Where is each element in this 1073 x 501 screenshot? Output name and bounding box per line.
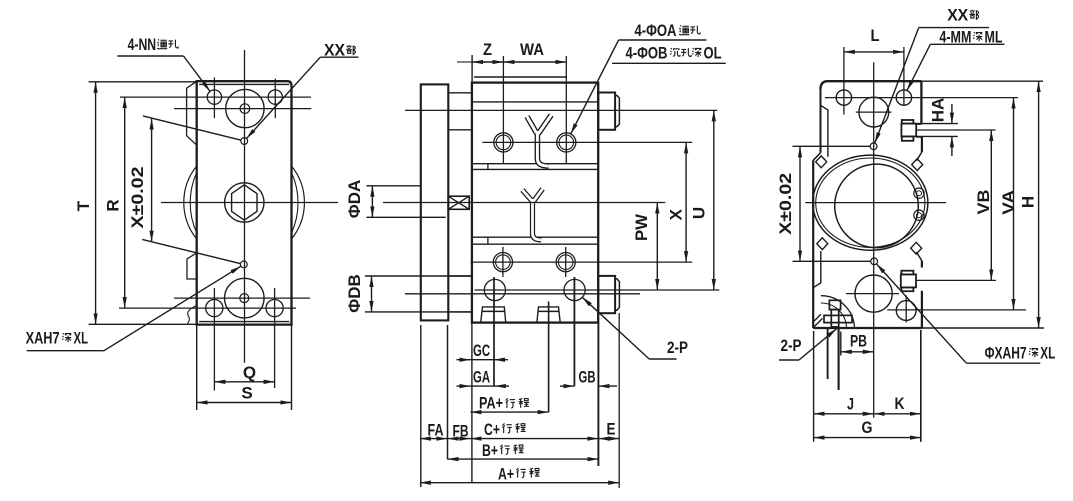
G/K right extension line xyxy=(920,330,922,442)
lower-right chamfer xyxy=(916,252,922,261)
HA top outside arrow xyxy=(951,104,953,124)
upper section boundary line 1 xyxy=(472,163,598,165)
GC dimension line xyxy=(470,359,494,361)
dimension L xyxy=(844,51,904,53)
svg-text:XAH7: XAH7 xyxy=(26,329,60,348)
bottom rod boss circle xyxy=(225,278,265,318)
XX leader arrow (right view) xyxy=(875,28,919,144)
dimension C+stroke xyxy=(470,438,598,440)
svg-text:OL: OL xyxy=(704,44,722,63)
svg-text:WA: WA xyxy=(520,40,544,59)
dimension Phi DB xyxy=(371,276,373,312)
svg-text:PW: PW xyxy=(632,213,651,241)
clamp ring second ellipse xyxy=(816,158,925,247)
GC right outside arrow xyxy=(494,359,508,361)
bottom port row / VA bottom extension xyxy=(887,309,1026,311)
2-P drill line 1 xyxy=(827,328,829,379)
svg-text:2-P: 2-P xyxy=(667,338,688,357)
right air port P (2-P) xyxy=(564,279,585,300)
HA side valve boss bottom cap xyxy=(902,136,914,140)
cylinder bore circle xyxy=(835,164,919,248)
rod cap face extension down xyxy=(618,313,620,488)
Phi XAH7 underline xyxy=(966,362,1040,364)
lower pin hole Phi X (right view) xyxy=(871,258,878,265)
Phi DB upper extension xyxy=(365,275,471,277)
port row line / U PW extension xyxy=(475,289,720,291)
right foot extension to PA xyxy=(548,302,550,413)
right view vertical center axis xyxy=(873,62,875,418)
dimension A+stroke xyxy=(420,482,619,484)
lower-left inner step line xyxy=(813,251,821,288)
svg-text:C+: C+ xyxy=(484,420,500,439)
piston centerline xyxy=(383,202,665,204)
left port/foot extension to GA xyxy=(493,277,495,387)
right view upper-right edge xyxy=(920,81,922,124)
2-P fitting top block xyxy=(829,300,840,309)
piston rod section box xyxy=(448,196,469,209)
left side boss inner arc (left) xyxy=(190,173,197,234)
svg-text:XX: XX xyxy=(324,40,346,59)
lower section boundary line 1 xyxy=(472,236,598,238)
top guide rod end block xyxy=(598,93,615,130)
centerline through bottom rod boss xyxy=(174,297,310,299)
vertical extension bottom-left hole to Q xyxy=(213,288,215,391)
XAH7 label underline xyxy=(27,350,104,352)
upper-left inner step line xyxy=(821,105,828,157)
bottom valve centerline / VB bottom extension xyxy=(916,279,996,281)
left mounting flange plate xyxy=(421,84,449,320)
dimension J xyxy=(814,413,874,415)
bottom port vertical centerline xyxy=(905,296,907,323)
H bottom extension line xyxy=(922,327,1044,329)
right side boss outer arc (left view) xyxy=(292,166,305,239)
center hex socket xyxy=(232,185,257,220)
Phi XAH7 leader arrow xyxy=(876,264,966,363)
upper-left bolt column centerline xyxy=(502,56,504,164)
dimension WA xyxy=(503,61,566,63)
right view horizontal centerline xyxy=(805,202,946,204)
svg-text:U: U xyxy=(689,207,708,219)
pocket hatch line 2 xyxy=(814,318,823,327)
S right extension line xyxy=(291,325,293,410)
dimension FB xyxy=(448,438,471,440)
dimension VA xyxy=(1013,98,1015,310)
dimension Phi DA xyxy=(371,186,373,218)
PB left extension line xyxy=(840,332,842,356)
dimension PA+stroke xyxy=(470,411,548,413)
Phi DA upper extension xyxy=(366,185,421,187)
right edge below bottom boss xyxy=(921,291,923,328)
left view horizontal centerline xyxy=(161,202,338,204)
upper section boundary line 2 xyxy=(472,168,598,170)
dimension X plus-minus 0.02 (right view) xyxy=(799,146,801,261)
right view rounded top-left corner xyxy=(821,81,829,89)
lower section boundary line 2 xyxy=(472,243,598,245)
GB right outside arrow xyxy=(598,385,617,387)
top hole row centerline / VA extension xyxy=(825,97,1018,99)
svg-text:XL: XL xyxy=(74,329,89,348)
HA side valve boss body xyxy=(901,124,916,137)
left view upper-left tab xyxy=(187,81,197,145)
bottom guide rod lower edge through gap xyxy=(448,311,472,313)
lower-left bolt centerline xyxy=(502,247,504,277)
bottom side valve boss body xyxy=(901,274,916,287)
svg-text:G: G xyxy=(862,418,873,437)
top guide rod end cap xyxy=(615,95,619,126)
right edge below HA boss xyxy=(921,137,923,152)
GA dimension line xyxy=(470,385,494,387)
right cushion foot xyxy=(537,307,560,323)
svg-text:2-P: 2-P xyxy=(781,336,802,355)
bottom-left clamp claw diamond xyxy=(817,238,828,250)
S left extension line xyxy=(196,325,198,410)
upper block lower edge xyxy=(472,101,598,103)
L right extension / hole centerline xyxy=(903,47,905,106)
svg-text:H: H xyxy=(1019,196,1038,208)
dimension PW xyxy=(656,203,658,291)
flange left edge extension down xyxy=(420,325,422,487)
svg-text:L: L xyxy=(871,26,880,45)
bottom side valve boss top cap xyxy=(901,271,913,275)
body left edge extension down xyxy=(471,323,473,483)
top guide rod lower edge through gap xyxy=(448,129,472,131)
HA side valve boss top cap xyxy=(902,120,914,124)
HA bottom outside arrow xyxy=(951,136,953,156)
connector above HA boss xyxy=(916,123,921,125)
svg-text:GB: GB xyxy=(579,368,596,387)
bottom-left screw hole xyxy=(206,300,223,317)
left view body outline xyxy=(197,81,292,324)
top center boss crosshair xyxy=(856,111,892,113)
lower-right through hole OA xyxy=(558,255,573,270)
left view top inner edge line xyxy=(199,83,289,85)
4-Phi OA underline xyxy=(619,39,707,41)
right port extension to GB xyxy=(573,277,575,386)
right edge above bottom boss xyxy=(921,261,923,268)
vertical centerline top-right hole xyxy=(274,79,276,119)
dimension T xyxy=(95,82,97,324)
section box diagonal 2 xyxy=(448,196,469,209)
dimension X xyxy=(685,142,687,262)
top rod boss circle xyxy=(226,89,264,127)
dimension S xyxy=(197,402,292,404)
2-P fitting stem xyxy=(831,310,838,327)
svg-text:GC: GC xyxy=(473,341,490,360)
svg-text:ΦDA: ΦDA xyxy=(345,180,364,219)
dimension X plus-minus 0.02 xyxy=(151,119,153,242)
svg-text:PB: PB xyxy=(850,332,867,351)
centerline through top screw holes xyxy=(120,96,311,98)
upper-left counterbore OB xyxy=(494,133,513,152)
pocket hatch line 1 xyxy=(814,314,821,321)
svg-text:R: R xyxy=(103,199,122,211)
right cushion foot inner line xyxy=(538,310,559,312)
svg-text:E: E xyxy=(607,420,616,439)
lower pin extension line xyxy=(793,260,871,262)
top-right MM tapped hole xyxy=(896,90,911,105)
lower bolt row centerline / X extension xyxy=(471,261,693,263)
upper sensor-bracket Y symbol xyxy=(527,115,551,166)
4-MM leader arrow xyxy=(907,44,930,90)
bottom guide rod end cap xyxy=(615,279,619,311)
slanted extension to lower pin xyxy=(142,239,240,263)
dimension FA xyxy=(420,438,448,440)
clamp ring outer ellipse xyxy=(813,155,928,250)
svg-text:Q: Q xyxy=(243,363,256,382)
left view lower-left cast lug curve xyxy=(187,306,197,325)
2-P leader arrow (right view) xyxy=(799,329,837,360)
dimension T bottom extension line xyxy=(89,323,197,325)
bottom rod boss circle (right view) xyxy=(855,275,892,312)
top-left MM tapped hole xyxy=(836,90,851,105)
svg-text:GA: GA xyxy=(473,368,490,387)
Phi DB lower extension xyxy=(365,311,471,313)
left air port P xyxy=(484,279,505,300)
top-right NN through hole xyxy=(268,90,282,104)
right view upper-left edge xyxy=(820,89,822,153)
section box diagonal 1 xyxy=(448,196,469,209)
dimension Z xyxy=(472,61,503,63)
svg-text:X: X xyxy=(667,208,686,220)
2-P pocket fillet arc outer xyxy=(821,296,855,328)
upper locating pin hole XX xyxy=(241,138,248,145)
2-P leader arrow xyxy=(582,297,649,359)
svg-text:S: S xyxy=(241,384,252,403)
lower-left counterbore OB xyxy=(493,253,512,272)
top-left NN through hole xyxy=(207,90,221,104)
bottom side valve boss bottom cap xyxy=(901,287,913,291)
2-P underline xyxy=(649,358,676,360)
ring screw upper xyxy=(914,188,924,198)
left cushion foot xyxy=(481,307,506,323)
lower-right counterbore OB xyxy=(556,253,575,272)
4-Phi OB underline xyxy=(612,62,726,64)
lower locating pin hole XAH7 xyxy=(240,261,247,268)
bottom-right screw hole xyxy=(266,300,283,317)
svg-text:J: J xyxy=(847,395,854,414)
bottom guide rod centerline xyxy=(405,293,640,295)
svg-text:PA+: PA+ xyxy=(479,394,503,413)
svg-text:FB: FB xyxy=(453,422,469,441)
svg-text:B+: B+ xyxy=(482,441,498,460)
svg-text:Z: Z xyxy=(483,40,492,59)
svg-text:XL: XL xyxy=(1040,344,1055,363)
svg-text:FA: FA xyxy=(428,420,444,439)
GB left outside arrow xyxy=(560,385,574,387)
upper boundary step vertical xyxy=(487,164,489,170)
dimension Q xyxy=(214,381,274,383)
svg-text:4-ΦOB: 4-ΦOB xyxy=(626,44,668,63)
upper-left chamfer to rail edge xyxy=(813,153,820,161)
vertical extension bottom-right hole to Q xyxy=(274,288,276,388)
svg-text:T: T xyxy=(74,200,93,211)
top rod center hole xyxy=(240,104,250,114)
upper-left through hole OA xyxy=(496,135,511,150)
4-MM underline xyxy=(930,43,1004,45)
svg-text:X±0.02: X±0.02 xyxy=(776,173,795,235)
dimension T top extension line xyxy=(89,81,196,83)
center hex socket boss circle xyxy=(225,183,264,222)
top-right clamp claw diamond xyxy=(912,159,923,171)
left view vertical center axis xyxy=(244,50,246,363)
centerline through bottom screw holes xyxy=(119,307,296,309)
right view top edge xyxy=(828,80,921,82)
hole label leader arrow xyxy=(571,40,619,134)
lower boundary step vertical xyxy=(487,237,489,244)
lower-right bolt centerline xyxy=(565,247,567,277)
GA left outside arrow xyxy=(457,385,471,387)
XX leader arrow xyxy=(247,57,321,138)
bottom rod center hole xyxy=(240,294,249,303)
ring screw lower xyxy=(914,210,924,220)
right view left edge xyxy=(812,160,814,328)
upper-right chamfer xyxy=(916,152,922,161)
HA top extension line xyxy=(916,123,958,125)
lower-left through hole OA xyxy=(496,255,511,270)
middle view main body outline xyxy=(472,83,598,323)
dimension U xyxy=(713,110,715,290)
bottom guide rod end block xyxy=(598,276,615,313)
middle sensor-bracket Y symbol xyxy=(522,189,542,240)
right side boss inner arc (left view) xyxy=(292,173,299,234)
centerline through top rod boss xyxy=(174,108,311,110)
svg-text:VB: VB xyxy=(974,190,993,215)
H top extension line xyxy=(921,80,1043,82)
svg-text:A+: A+ xyxy=(498,464,514,483)
bottom boss crosshair xyxy=(846,293,899,295)
bottom guide rod upper edge through gap xyxy=(448,275,472,277)
dimension B+stroke xyxy=(448,458,599,460)
dimension E xyxy=(598,438,619,440)
svg-text:X±0.02: X±0.02 xyxy=(128,167,147,229)
left view bottom inner edge line xyxy=(199,321,289,323)
upper bolt row centerline / X extension xyxy=(482,141,692,143)
svg-text:ΦDB: ΦDB xyxy=(345,274,364,313)
top guide rod centerline / U extension xyxy=(405,109,717,111)
top-left clamp claw diamond xyxy=(816,156,827,168)
2-P underline (right view) xyxy=(779,359,799,361)
upper-right counterbore OB xyxy=(557,133,576,152)
upper pin extension line xyxy=(793,145,871,147)
XX underline (right view) xyxy=(919,27,989,29)
left view lower-left tab xyxy=(187,253,197,279)
dimension PB xyxy=(841,351,874,353)
svg-text:VA: VA xyxy=(999,190,1018,215)
top thin line above body edge xyxy=(474,76,567,78)
upper-right bolt column centerline xyxy=(565,56,567,164)
connector below HA boss xyxy=(916,136,922,138)
upper pin hole XX (right view) xyxy=(870,143,877,150)
2-P fitting cross bar xyxy=(824,315,852,322)
dimension R xyxy=(124,97,126,308)
Z left extension xyxy=(471,55,473,83)
slanted extension to upper pin xyxy=(143,116,241,140)
bottom-right port hole xyxy=(896,301,916,321)
upper-right through hole OA xyxy=(559,135,574,150)
bottom-right clamp claw diamond xyxy=(911,242,922,254)
svg-text:ΦXAH7: ΦXAH7 xyxy=(985,344,1027,363)
body right edge extension down xyxy=(597,323,599,466)
dimension VB xyxy=(990,130,992,280)
dimension H xyxy=(1038,81,1040,328)
4-NN leader arrow xyxy=(184,56,211,91)
svg-text:HA: HA xyxy=(928,98,947,123)
XX label underline xyxy=(320,56,358,58)
svg-text:XX: XX xyxy=(947,5,969,24)
left side boss outer arc (left) xyxy=(184,166,197,239)
dimension G xyxy=(814,437,921,439)
L left extension / hole centerline xyxy=(843,47,845,115)
flange right edge extension down xyxy=(447,325,449,460)
G/J left extension line xyxy=(813,331,815,442)
GA right outside arrow xyxy=(495,385,509,387)
right view bottom edge xyxy=(813,327,922,329)
GC left outside arrow xyxy=(457,359,471,361)
4-NN label underline xyxy=(117,55,183,57)
vertical centerline top-left hole xyxy=(213,78,215,119)
dimension K xyxy=(874,413,921,415)
top center rod boss circle xyxy=(859,97,889,127)
svg-text:K: K xyxy=(895,394,906,413)
svg-text:4-NN: 4-NN xyxy=(128,35,157,54)
Phi DA lower extension xyxy=(366,216,445,218)
svg-text:4-ΦOA: 4-ΦOA xyxy=(635,21,677,40)
left cushion foot inner line xyxy=(482,310,505,312)
HA bottom extension line xyxy=(916,135,958,137)
HA valve centerline / VB top extension xyxy=(917,129,996,131)
XAH7 leader arrow xyxy=(104,266,241,351)
top guide rod upper edge through gap xyxy=(448,92,472,94)
2-P pocket fillet arc inner xyxy=(821,303,847,328)
2-P drill line 2 xyxy=(838,328,840,390)
